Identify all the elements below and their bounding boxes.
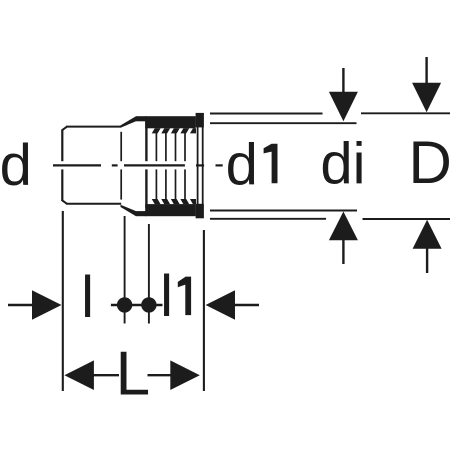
flange top cap [196, 113, 204, 128]
l end extension line [148, 224, 150, 324]
svg-text:D: D [409, 129, 450, 196]
svg-text:d: d [226, 132, 258, 197]
pipe top inner wall / di line [210, 122, 357, 124]
socket left end face [61, 130, 63, 201]
pipe top outer wall [210, 113, 323, 115]
socket bottom chamfer [62, 200, 67, 204]
svg-text:d: d [0, 133, 32, 198]
label d1 digit [264, 144, 278, 184]
D top arrow [412, 57, 441, 112]
l1 dimension line [111, 304, 163, 306]
L left arrow [64, 360, 119, 390]
pipe bottom inner wall / di line [210, 210, 357, 212]
socket top chamfer [62, 127, 67, 131]
left extension line [62, 211, 64, 391]
cone bottom band [121, 205, 137, 217]
flange bottom cap [196, 204, 204, 219]
label l1 digit [178, 277, 191, 316]
flange edge lines [198, 127, 203, 204]
svg-text:l: l [160, 264, 173, 329]
svg-text:l: l [81, 265, 94, 330]
di top arrow [329, 68, 358, 121]
thread teeth bottom [152, 199, 196, 204]
thread root lines [156, 133, 185, 200]
D extension line bottom [363, 218, 450, 220]
dimension dot 2 [141, 297, 156, 312]
thread top band [136, 116, 146, 121]
centerline [53, 164, 223, 166]
svg-text:L: L [116, 339, 150, 408]
l1 dimension arrow [206, 290, 259, 319]
socket bottom wall [66, 203, 121, 205]
right extension line [203, 230, 205, 391]
D bottom arrow [413, 220, 442, 273]
D extension line top [361, 112, 450, 114]
svg-text:di: di [320, 132, 365, 197]
thread boundary line [145, 121, 147, 208]
pipe bottom outer wall [210, 218, 326, 220]
socket pipe-stop line [120, 132, 122, 200]
l1 start extension line [124, 216, 126, 324]
thread bottom band [136, 211, 146, 216]
di bottom arrow [329, 212, 358, 265]
socket top wall [66, 126, 121, 128]
L right arrow [148, 360, 200, 390]
dimension dot 1 [117, 297, 132, 312]
cone top band [121, 116, 137, 128]
l dimension arrow [8, 290, 62, 319]
thread teeth top [152, 128, 196, 133]
